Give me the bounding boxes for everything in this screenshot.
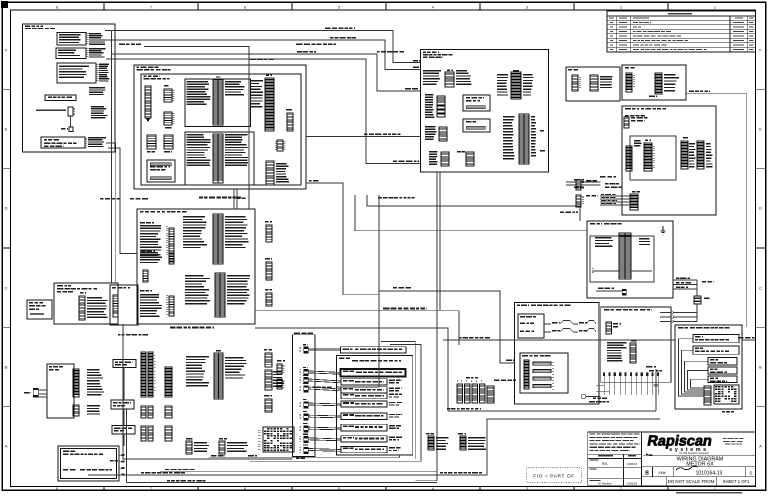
svg-text:01/01/18: 01/01/18: [627, 462, 638, 466]
svg-text:4: 4: [432, 487, 434, 491]
svg-text:1010164-13: 1010164-13: [696, 470, 723, 476]
svg-text:6: 6: [244, 487, 246, 491]
svg-text:1: 1: [714, 5, 716, 9]
svg-text:2: 2: [620, 5, 622, 9]
svg-text:D: D: [5, 206, 8, 210]
svg-text:KM#: KM#: [659, 471, 666, 475]
svg-text:7: 7: [150, 487, 152, 491]
svg-text:2: 2: [620, 487, 622, 491]
svg-text:An OSI Systems Company: An OSI Systems Company: [679, 452, 709, 455]
svg-text:6: 6: [244, 5, 246, 9]
svg-text:3: 3: [526, 487, 528, 491]
svg-text:DO NOT SCALE FROM: DO NOT SCALE FROM: [668, 479, 715, 484]
svg-text:5: 5: [338, 5, 340, 9]
svg-text:C: C: [5, 286, 8, 290]
svg-text:3: 3: [526, 5, 528, 9]
svg-text:8: 8: [56, 487, 58, 491]
svg-text:M. Ramirez: M. Ramirez: [598, 482, 612, 486]
svg-text:5: 5: [338, 487, 340, 491]
svg-text:01/01/18: 01/01/18: [627, 482, 638, 486]
svg-text:S: S: [749, 471, 752, 476]
svg-text:SHEET 1 OF1: SHEET 1 OF1: [723, 479, 750, 484]
svg-text:8: 8: [56, 5, 58, 9]
svg-text:4: 4: [432, 5, 434, 9]
svg-text:C: C: [759, 286, 762, 290]
svg-text:D: D: [759, 206, 762, 210]
svg-text:B: B: [645, 471, 649, 477]
svg-text:1: 1: [714, 487, 716, 491]
svg-text:7: 7: [150, 5, 152, 9]
svg-text:F/O = PART OF: F/O = PART OF: [533, 473, 575, 479]
svg-text:RXL: RXL: [602, 462, 608, 466]
